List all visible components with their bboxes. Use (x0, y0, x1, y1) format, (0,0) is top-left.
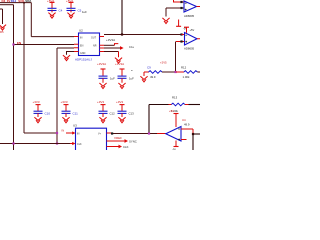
port arrow pin2 (125, 139, 129, 143)
IC U2 right pins (100, 37, 105, 52)
wire rail gnd drop (143, 72, 145, 76)
node +in dot (180, 7, 182, 9)
wire net1 top (0, 2, 31, 4)
op-amp U1 triangle (184, 1, 197, 12)
wire +in gnd (165, 8, 167, 17)
wire vertical x57 (56, 48, 58, 144)
svg-text:49.9: 49.9 (150, 75, 156, 79)
svg-text:+3V3: +3V3 (116, 100, 123, 104)
wire B y51.5 (104, 51, 119, 53)
wire +in (166, 7, 184, 9)
op-amp U4 V- pin (175, 141, 177, 147)
wire rail red2 (176, 71, 184, 73)
svg-text:1uF: 1uF (82, 10, 87, 14)
svg-text:+3V3: +3V3 (33, 100, 40, 104)
svg-text:0.1u: 0.1u (129, 45, 135, 49)
wire vertical x175.5 (175, 42, 177, 73)
ground opamp1 (162, 18, 169, 24)
wire +in y139.5 (181, 139, 187, 141)
resistor R3 lead right (185, 104, 189, 106)
svg-text:1uF: 1uF (129, 77, 134, 81)
svg-text:SYNC: SYNC (129, 140, 137, 144)
op-amp U1B triangle (185, 33, 198, 46)
node dot 112,133 (111, 132, 113, 134)
op-amp U1 V- pin (178, 20, 180, 27)
wire output row y133.5 (112, 133, 157, 135)
op-amp U1B V+ pin (186, 27, 188, 32)
wire vertical x149 (148, 105, 150, 134)
wire rail mid (162, 71, 176, 73)
svg-text:49.9: 49.9 (184, 123, 190, 127)
capacitor C13 (bottom row x122) (116, 100, 134, 123)
resistor R3 body (171, 103, 185, 106)
wire net2 horizontal y133 (24, 132, 57, 134)
svg-text:-5V: -5V (172, 148, 176, 151)
capacitor C10 (bottom row x38) (33, 100, 51, 123)
wire out right y134 (193, 133, 200, 135)
wire y104.5 right (189, 104, 201, 106)
op-amp U4 triangle (166, 127, 181, 142)
wire B gnd stub (118, 52, 120, 58)
power bar U4 V+ (174, 113, 179, 115)
svg-text:IN: IN (62, 129, 65, 133)
wire rail left red (144, 71, 149, 73)
node junction x24 (23, 2, 25, 4)
wire output red to apex (157, 133, 166, 135)
wire net1 to IC1 IN (31, 36, 74, 38)
op-amp U1B input marks (185, 35, 187, 42)
IC U3 left pin2 arrow (70, 143, 73, 145)
svg-text:EN: EN (17, 41, 21, 45)
svg-text:1uF: 1uF (110, 77, 115, 81)
wire +in B (176, 41, 185, 43)
op-amp U4 V+ pin (175, 114, 177, 127)
power bar U1 V- (176, 25, 181, 27)
svg-text:IN: IN (80, 37, 83, 40)
svg-text:C11: C11 (73, 111, 79, 115)
wire IC1 gnd stub (67, 52, 75, 55)
wire bottom long y143.5 (0, 143, 70, 145)
svg-text:AD8605: AD8605 (184, 14, 195, 18)
svg-text:R5: R5 (0, 30, 4, 34)
IC U3 right pin1 (107, 132, 113, 134)
svg-text:CLK: CLK (77, 143, 82, 146)
svg-text:IN: IN (77, 133, 80, 136)
wire rail right (197, 71, 200, 73)
IC U3 box (76, 128, 107, 150)
op-amp U4 input marks (178, 129, 180, 140)
port arrow pin3 (119, 145, 123, 149)
svg-text:VREF: VREF (114, 136, 122, 140)
ground rail (140, 76, 147, 82)
svg-text:U3: U3 (73, 123, 77, 127)
capacitor C11 (bottom row x66) (61, 100, 79, 123)
svg-text:OUT: OUT (91, 37, 97, 40)
wire -in y129 (181, 128, 193, 130)
wire vertical x193 down (192, 134, 194, 150)
svg-text:U4: U4 (182, 118, 186, 122)
wire y104.5 left corner (149, 104, 169, 106)
svg-text:NR: NR (93, 44, 97, 47)
node junction 175.5,72 (174, 71, 176, 73)
wire -in from top edge (174, 0, 185, 2)
node -in dot (180, 1, 182, 3)
capacitor C6 (mid row x103) (97, 62, 115, 88)
wire net2 vertical x24 (23, 3, 25, 133)
svg-text:R13: R13 (172, 95, 178, 99)
wire net1 vertical x34 (30, 3, 32, 37)
power bar U4 V- (174, 146, 179, 148)
resistor R3 lead left (169, 104, 172, 106)
capacitor C2 (top row x71) (66, 0, 82, 18)
op-amp U1 output (197, 6, 201, 8)
svg-text:CLK: CLK (123, 145, 129, 149)
wire net3 (0, 4, 14, 6)
svg-text:ADP151AUJ: ADP151AUJ (75, 58, 92, 62)
node -in dot B (180, 33, 182, 35)
wire feedback vertical red (192, 129, 194, 134)
capacitor C7 (mid row x122) (115, 62, 134, 88)
node junction 122,34.5 (121, 33, 123, 35)
svg-text:+3V3A: +3V3A (106, 38, 115, 42)
port arrow A (120, 46, 124, 50)
node junction 57,143.5 (56, 142, 58, 144)
wire NR jog dark (104, 44, 115, 46)
wire vertical x122 from top (121, 0, 123, 35)
ground B (115, 58, 122, 64)
capacitor C1 (top row x52) (47, 0, 63, 18)
svg-text:U2: U2 (79, 29, 83, 33)
wire y48 from x57 (57, 47, 74, 49)
capacitor C12 (bottom row x103) (97, 100, 115, 123)
IC U3 right pin2 wire (107, 140, 125, 142)
svg-text:C10: C10 (45, 111, 51, 115)
svg-text:GND: GND (80, 52, 86, 55)
node junction 149,133.5 (148, 132, 150, 134)
wire -in red stub B (182, 34, 185, 36)
ground net4 (0, 25, 6, 31)
IC U3 right pin3 wire (107, 146, 119, 148)
svg-text:C12: C12 (110, 111, 116, 115)
wire NR jog red (115, 44, 119, 46)
svg-text:+5V: +5V (190, 28, 195, 32)
node junction 57,133 (56, 132, 58, 134)
svg-text:+5V: +5V (169, 109, 174, 113)
svg-text:+3V3A: +3V3A (97, 62, 106, 66)
IC U3 left pin1 arrow (66, 132, 73, 134)
node junction 193,134 (192, 133, 194, 135)
svg-text:+2V5: +2V5 (160, 61, 167, 65)
resistor R1 body (149, 71, 163, 74)
svg-text:1.00k: 1.00k (183, 75, 190, 79)
IC U2 box (79, 33, 100, 56)
node +in dot B (180, 40, 182, 42)
wire A y48 (104, 47, 120, 49)
wire EN y44.5 (14, 44, 75, 46)
op-amp U1 input marks (185, 3, 187, 10)
wire OUT rail (104, 34, 182, 36)
svg-text:EN: EN (80, 44, 84, 47)
svg-text:+3V3: +3V3 (97, 100, 104, 104)
node junction 13.5,44.5 (12, 43, 14, 45)
ground IC1 (63, 55, 70, 61)
wire net3 vertical x13.5 (13, 5, 15, 150)
svg-text:R12: R12 (181, 65, 187, 69)
svg-text:C13: C13 (129, 111, 135, 115)
resistor R2 body (184, 71, 198, 74)
svg-text:+3V3: +3V3 (61, 100, 68, 104)
node junction 13.5,143.5 (12, 142, 14, 144)
wire net4 (0, 8, 3, 10)
wire net4 vertical x2.5 (2, 9, 4, 24)
op-amp U1B output (197, 38, 200, 40)
svg-text:C4: C4 (59, 8, 63, 12)
svg-text:+3V3A: +3V3A (115, 62, 124, 66)
power bar U1B V+ (184, 26, 189, 28)
svg-text:AD8605: AD8605 (184, 46, 195, 50)
IC U2 left pins (74, 37, 79, 52)
svg-text:C9: C9 (147, 65, 151, 69)
